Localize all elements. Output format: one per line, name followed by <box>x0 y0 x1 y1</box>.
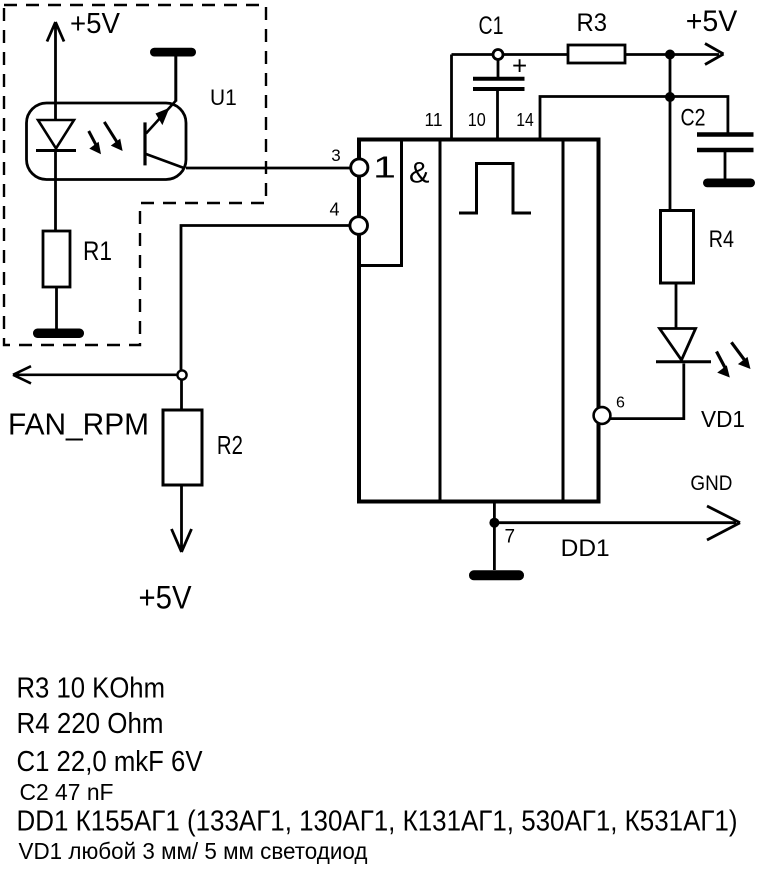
resistor R1 <box>43 231 70 287</box>
svg-text:7: 7 <box>505 526 516 547</box>
svg-text:DD1 К155АГ1 (133АГ1, 130АГ1, К: DD1 К155АГ1 (133АГ1, 130АГ1, К131АГ1, 53… <box>17 806 738 838</box>
pulse symbol <box>459 164 531 214</box>
ground bar (R1) <box>33 329 84 339</box>
svg-text:R4: R4 <box>709 226 734 253</box>
capacitor C2 <box>697 135 754 180</box>
svg-text:VD1: VD1 <box>701 406 745 432</box>
svg-text:10: 10 <box>468 110 486 130</box>
ground bar (pin 7) <box>469 570 524 580</box>
FAN_RPM arrow wire <box>13 366 177 383</box>
wire pin 4 to FAN node <box>181 226 351 372</box>
pin 7 wire down <box>493 502 496 571</box>
resistor R2 <box>163 410 202 485</box>
svg-text:3: 3 <box>331 146 340 165</box>
+5V supply arrow (top left) <box>47 22 64 120</box>
svg-text:11: 11 <box>425 110 443 130</box>
VD1 light arrow 1 <box>717 352 730 378</box>
svg-text:1: 1 <box>373 150 396 185</box>
svg-text:FAN_RPM: FAN_RPM <box>8 407 149 442</box>
opto LED <box>36 120 76 151</box>
svg-text:14: 14 <box>516 110 534 130</box>
wire R4 to VD1 <box>675 283 678 329</box>
pin 4 circle <box>350 217 368 235</box>
wire R2 down with arrow <box>172 485 192 552</box>
collector supply bar <box>150 48 196 57</box>
svg-text:4: 4 <box>330 200 340 220</box>
svg-text:C1: C1 <box>479 12 504 40</box>
svg-text:R2: R2 <box>217 430 243 460</box>
wire R1 to ground <box>55 287 58 330</box>
pin 14 wire <box>540 97 670 140</box>
svg-text:C2: C2 <box>681 104 706 131</box>
VD1 light arrow 2 <box>731 342 750 369</box>
wire LED cathode to R1 <box>54 151 57 232</box>
junction dot (rail/R3 right) <box>665 50 675 60</box>
wire junction to R4 <box>669 97 672 211</box>
junction dot (pin14 net) <box>665 92 675 102</box>
light arrow 1 <box>89 131 101 154</box>
C1 node circle <box>493 50 503 60</box>
svg-text:+5V: +5V <box>70 8 121 40</box>
svg-text:R4 220 Ohm: R4 220 Ohm <box>17 708 164 740</box>
svg-text:C2 47 nF: C2 47 nF <box>20 779 114 805</box>
svg-text:R3: R3 <box>577 9 608 37</box>
light arrow 2 <box>104 122 122 151</box>
opto phototransistor <box>145 56 184 168</box>
pin 6 circle <box>594 407 611 424</box>
divider 2 <box>562 140 565 502</box>
wire VD1 to pin 6 <box>610 364 684 419</box>
wire node to R2 <box>180 380 183 411</box>
optocoupler U1 body <box>27 103 187 180</box>
dashed enclosure around optocoupler sensor <box>4 5 266 345</box>
svg-text:R3 10 KOhm: R3 10 KOhm <box>17 673 166 705</box>
pin 3 circle <box>351 159 368 176</box>
resistor R4 <box>661 211 694 284</box>
svg-text:+: + <box>512 50 527 80</box>
pin 11 wire up <box>450 55 453 140</box>
divider 1 <box>439 140 442 502</box>
IC DD1 body <box>359 140 599 502</box>
wire emitter to pin 3 <box>186 167 351 170</box>
resistor R3 <box>568 45 625 63</box>
LED VD1 <box>656 329 711 362</box>
svg-text:VD1 любой 3 мм/ 5 мм светодиод: VD1 любой 3 мм/ 5 мм светодиод <box>19 838 369 864</box>
svg-text:+5V: +5V <box>139 580 193 616</box>
capacitor C1 <box>473 60 525 140</box>
svg-text:&: & <box>409 156 430 189</box>
svg-text:U1: U1 <box>210 85 237 110</box>
svg-text:+5V: +5V <box>686 5 738 38</box>
svg-text:C1 22,0 mkF 6V: C1 22,0 mkF 6V <box>17 746 204 778</box>
GND wire with arrow <box>494 506 740 540</box>
svg-text:DD1: DD1 <box>561 535 610 562</box>
wire to C2 <box>670 97 728 133</box>
top +5V rail <box>452 44 724 65</box>
node circle (FAN junction) <box>177 370 186 379</box>
svg-text:GND: GND <box>690 472 732 495</box>
svg-text:R1: R1 <box>83 236 112 266</box>
ground bar (C2) <box>703 179 755 188</box>
junction dot (pin 7) <box>489 518 499 528</box>
svg-text:6: 6 <box>616 395 625 412</box>
sub-box "1" section <box>359 140 402 266</box>
wire junction down <box>669 55 672 98</box>
